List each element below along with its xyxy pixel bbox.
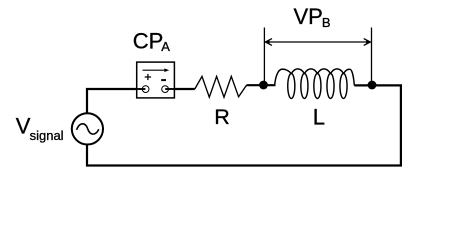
arrow inside CP box: [143, 69, 167, 71]
svg-text:V: V: [16, 114, 31, 139]
CP left terminal circle: [142, 86, 149, 93]
svg-text:CP: CP: [133, 29, 164, 54]
inductor L coil: entry curve, 6 top humps: [275, 69, 355, 86]
svg-text:B: B: [322, 15, 331, 30]
sine symbol inside source Vsignal: [77, 124, 99, 134]
wire: node B to top-right corner, down right side, bottom, and up to source: [87, 85, 401, 165]
voltage probe VP_B right tick: [371, 28, 373, 84]
wire: resistor end through node A to coil entry: [247, 84, 276, 86]
svg-text:R: R: [214, 105, 230, 129]
VP_B arrow left head: [265, 39, 272, 46]
voltage probe VP_B left tick: [263, 28, 265, 84]
wire: top-left horizontal from source corner to CP left terminal: [87, 89, 147, 114]
CP right terminal circle: [162, 86, 169, 93]
plus sign in CP box: [145, 76, 151, 78]
junction dot: right node of L (VP_B right terminal): [368, 81, 377, 90]
inductor L loops (5 narrow ellipses): [288, 74, 347, 99]
resistor R zigzag: [195, 76, 247, 97]
wire: coil exit to node B: [354, 84, 372, 86]
wire stub to left terminal inside box: [136, 88, 145, 90]
svg-text:VP: VP: [294, 4, 323, 29]
wire: CP right terminal to resistor start: [164, 88, 195, 90]
svg-text:A: A: [161, 39, 170, 54]
wire stub from right terminal inside box: [165, 88, 175, 90]
svg-text:L: L: [313, 105, 325, 130]
minus sign in CP box: [161, 79, 166, 81]
current probe CP_A box: [137, 62, 175, 98]
VP_B arrow right head: [364, 39, 371, 46]
junction dot: left node of L (VP_B left terminal): [259, 81, 268, 90]
voltage source Vsignal: [72, 113, 103, 144]
svg-text:signal: signal: [30, 128, 64, 143]
voltage probe VP_B double-headed arrow shaft: [265, 41, 370, 43]
